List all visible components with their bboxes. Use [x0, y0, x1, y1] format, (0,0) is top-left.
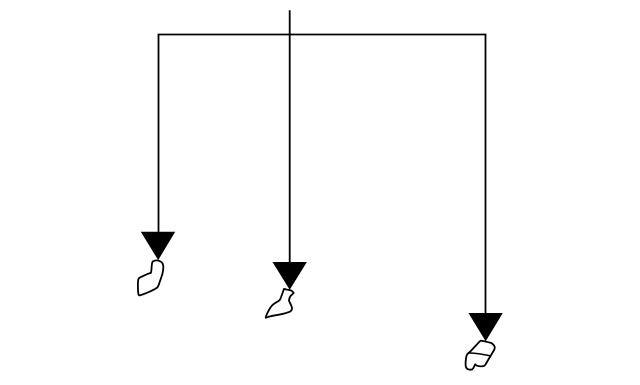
wire: top stem and middle branch: [289, 10, 291, 262]
wire: right branch: [485, 35, 487, 315]
arrowhead A1 (left): [141, 232, 175, 260]
arrowhead A2 (middle): [273, 262, 307, 290]
shape S3 inner divide line: [468, 353, 491, 356]
shape S3 (right blob): [466, 341, 495, 370]
arrowhead A3 (right): [468, 313, 502, 341]
wire: left branch: [158, 35, 160, 233]
wire: horizontal bus: [158, 34, 487, 36]
shape S2 (middle blob): [266, 289, 294, 318]
shape S1 (left blob): [138, 260, 163, 295]
